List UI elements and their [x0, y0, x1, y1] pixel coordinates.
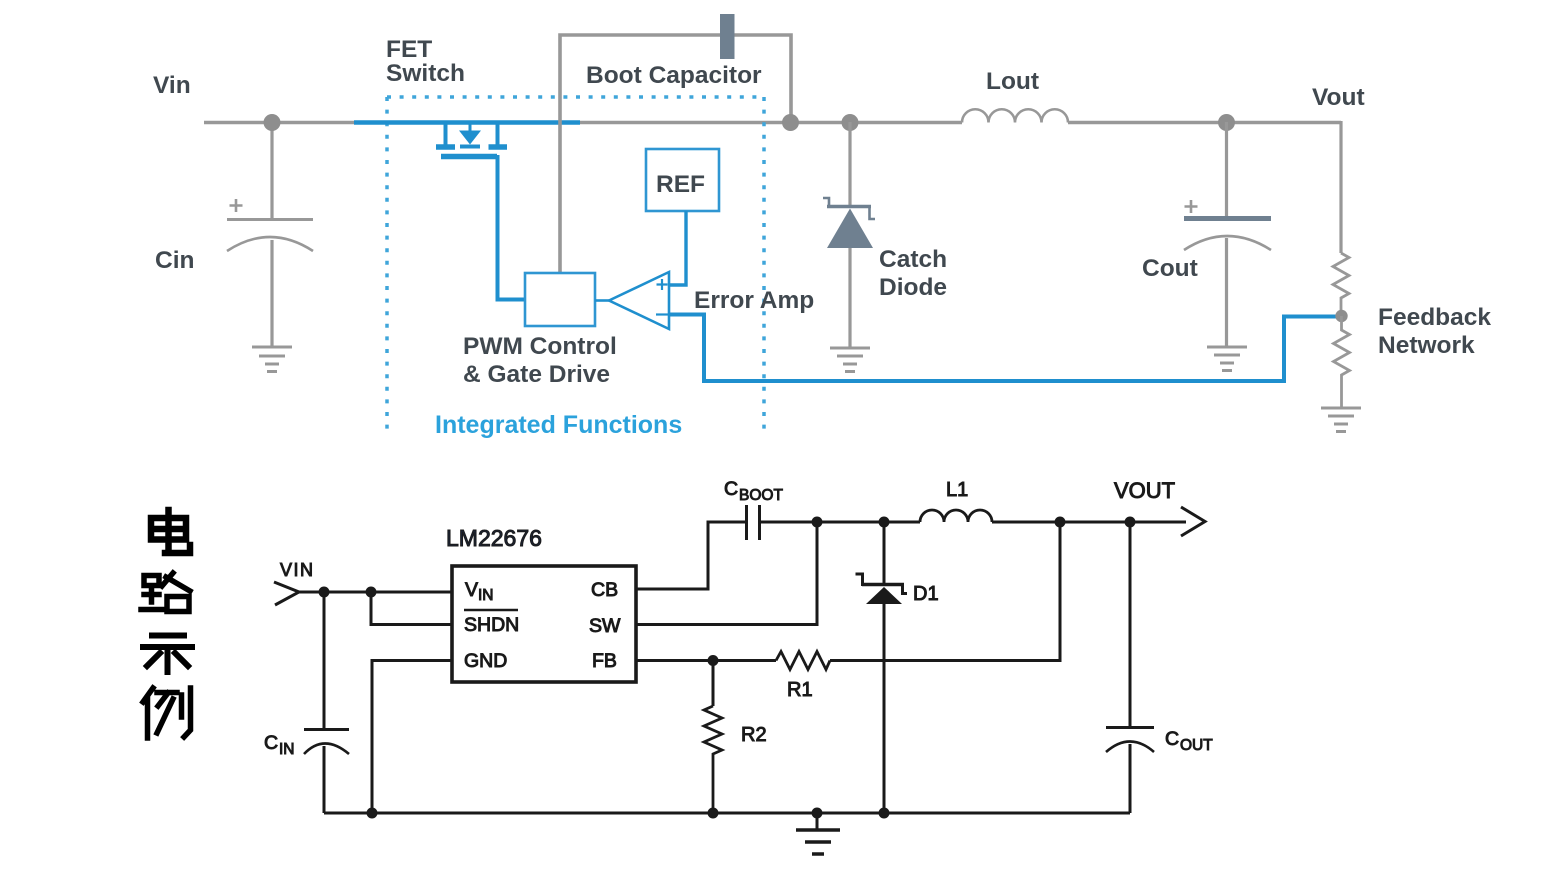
ground symbol	[816, 813, 819, 829]
resistor feedback lower	[1334, 316, 1350, 407]
svg-text:VOUT: VOUT	[1114, 478, 1175, 503]
ground under Cin	[252, 347, 292, 372]
op-amp error amplifier	[595, 299, 609, 302]
svg-text:V: V	[465, 579, 478, 601]
ground under catch diode	[830, 348, 870, 372]
capacitor COUT	[1129, 522, 1132, 727]
inductor Lout	[962, 109, 1068, 122]
caption char 路	[141, 576, 163, 610]
junction at SHDN branch	[366, 587, 377, 598]
capacitor CBOOT	[747, 505, 760, 540]
resistor R2	[712, 661, 715, 707]
ground under Cout	[1207, 347, 1247, 371]
junction node Cout / rail	[1218, 114, 1235, 131]
junction D1 node	[879, 517, 890, 528]
svg-text:Integrated Functions: Integrated Functions	[435, 411, 682, 439]
svg-text:IN: IN	[478, 587, 494, 604]
wire R1 to output node	[830, 522, 1060, 661]
dashed box Integrated Functions	[387, 95, 764, 99]
svg-text:Vout: Vout	[1312, 84, 1365, 111]
junction rail/D1	[879, 808, 890, 819]
transistor FET switch (P-MOSFET)	[436, 122, 507, 157]
block REF box	[646, 149, 719, 211]
wire CB to boot capacitor	[636, 522, 745, 589]
junction L1 output / R1 riser	[1055, 517, 1066, 528]
svg-text:Lout: Lout	[986, 68, 1039, 95]
junction VOUT / COUT	[1125, 517, 1136, 528]
svg-text:D1: D1	[913, 583, 939, 605]
svg-text:REF: REF	[656, 171, 705, 198]
ground under feedback network	[1321, 408, 1361, 432]
svg-text:VIN: VIN	[280, 560, 315, 580]
wire SW riser	[636, 522, 817, 625]
svg-text:R1: R1	[787, 679, 813, 701]
capacitor CIN	[323, 592, 326, 729]
wire SHDN branch	[371, 592, 452, 625]
svg-text:OUT: OUT	[1180, 737, 1213, 754]
svg-text:C: C	[264, 732, 278, 754]
svg-text:LM22676: LM22676	[446, 525, 542, 551]
node VOUT arrow	[1181, 507, 1205, 536]
junction node at Vin/Cin	[264, 114, 281, 131]
inductor L1	[920, 510, 992, 522]
wire blue switch rail	[354, 120, 580, 124]
wire main input rail Vin	[204, 121, 1341, 125]
junction R2 tap	[708, 655, 719, 666]
junction rail/GND return	[367, 808, 378, 819]
svg-text:C: C	[1165, 728, 1179, 750]
diode D1 schottky	[883, 522, 886, 584]
wire Vout branch corner	[1339, 121, 1342, 253]
junction at Cin	[319, 587, 330, 598]
capacitor Cin	[270, 122, 273, 219]
svg-text:SW: SW	[589, 615, 621, 637]
svg-text:Switch: Switch	[386, 60, 465, 87]
node VIN input chevron	[274, 582, 299, 605]
wire GND return	[372, 661, 452, 814]
junction rail/R2	[708, 808, 719, 819]
svg-text:Vin: Vin	[153, 72, 191, 99]
wire REF to error amp	[669, 211, 686, 285]
svg-text:SHDN: SHDN	[464, 614, 519, 636]
svg-text:L1: L1	[946, 479, 968, 501]
wire FET gate to PWM block	[498, 155, 526, 300]
svg-text:GND: GND	[464, 650, 507, 672]
svg-text:Cin: Cin	[155, 247, 194, 274]
resistor feedback upper	[1333, 253, 1349, 316]
junction boot/SW node	[812, 517, 823, 528]
diode catch diode	[848, 122, 851, 206]
wire ground rail	[324, 812, 1130, 815]
wire feedback to error amp inverting input	[669, 315, 1336, 382]
junction node catch diode / rail	[842, 114, 859, 131]
caption char 示	[143, 636, 192, 673]
svg-text:IN: IN	[279, 741, 295, 758]
svg-text:Error Amp: Error Amp	[694, 287, 814, 314]
capacitor Boot (slate block)	[720, 14, 735, 59]
resistor R1	[776, 652, 830, 670]
capacitor Cout	[1225, 122, 1228, 216]
svg-text:Feedback: Feedback	[1378, 304, 1491, 331]
wire FB row	[636, 659, 776, 662]
wire boot capacitor loop	[560, 35, 791, 276]
svg-text:R2: R2	[741, 724, 767, 746]
svg-text:& Gate Drive: & Gate Drive	[463, 361, 610, 388]
svg-text:FB: FB	[592, 650, 617, 672]
svg-text:Diode: Diode	[879, 274, 947, 301]
wire boot node rail	[761, 521, 1186, 524]
svg-text:FET: FET	[386, 36, 432, 63]
wire VIN to IC	[297, 591, 452, 594]
svg-text:C: C	[724, 478, 738, 500]
svg-text:Network: Network	[1378, 332, 1475, 359]
block PWM Control box	[525, 273, 595, 326]
svg-text:BOOT: BOOT	[739, 487, 783, 504]
svg-text:CB: CB	[591, 579, 618, 601]
svg-text:PWM Control: PWM Control	[463, 333, 617, 360]
junction rail/ground stem	[812, 808, 823, 819]
svg-text:Catch: Catch	[879, 246, 947, 273]
IC U1 LM22676 box	[452, 566, 636, 682]
junction node feedback tap	[1335, 310, 1347, 322]
svg-text:Boot Capacitor: Boot Capacitor	[586, 62, 762, 89]
svg-text:Cout: Cout	[1142, 255, 1198, 282]
caption char 例	[143, 688, 191, 738]
caption char 电	[151, 510, 190, 553]
junction node boot / rail	[782, 114, 799, 131]
